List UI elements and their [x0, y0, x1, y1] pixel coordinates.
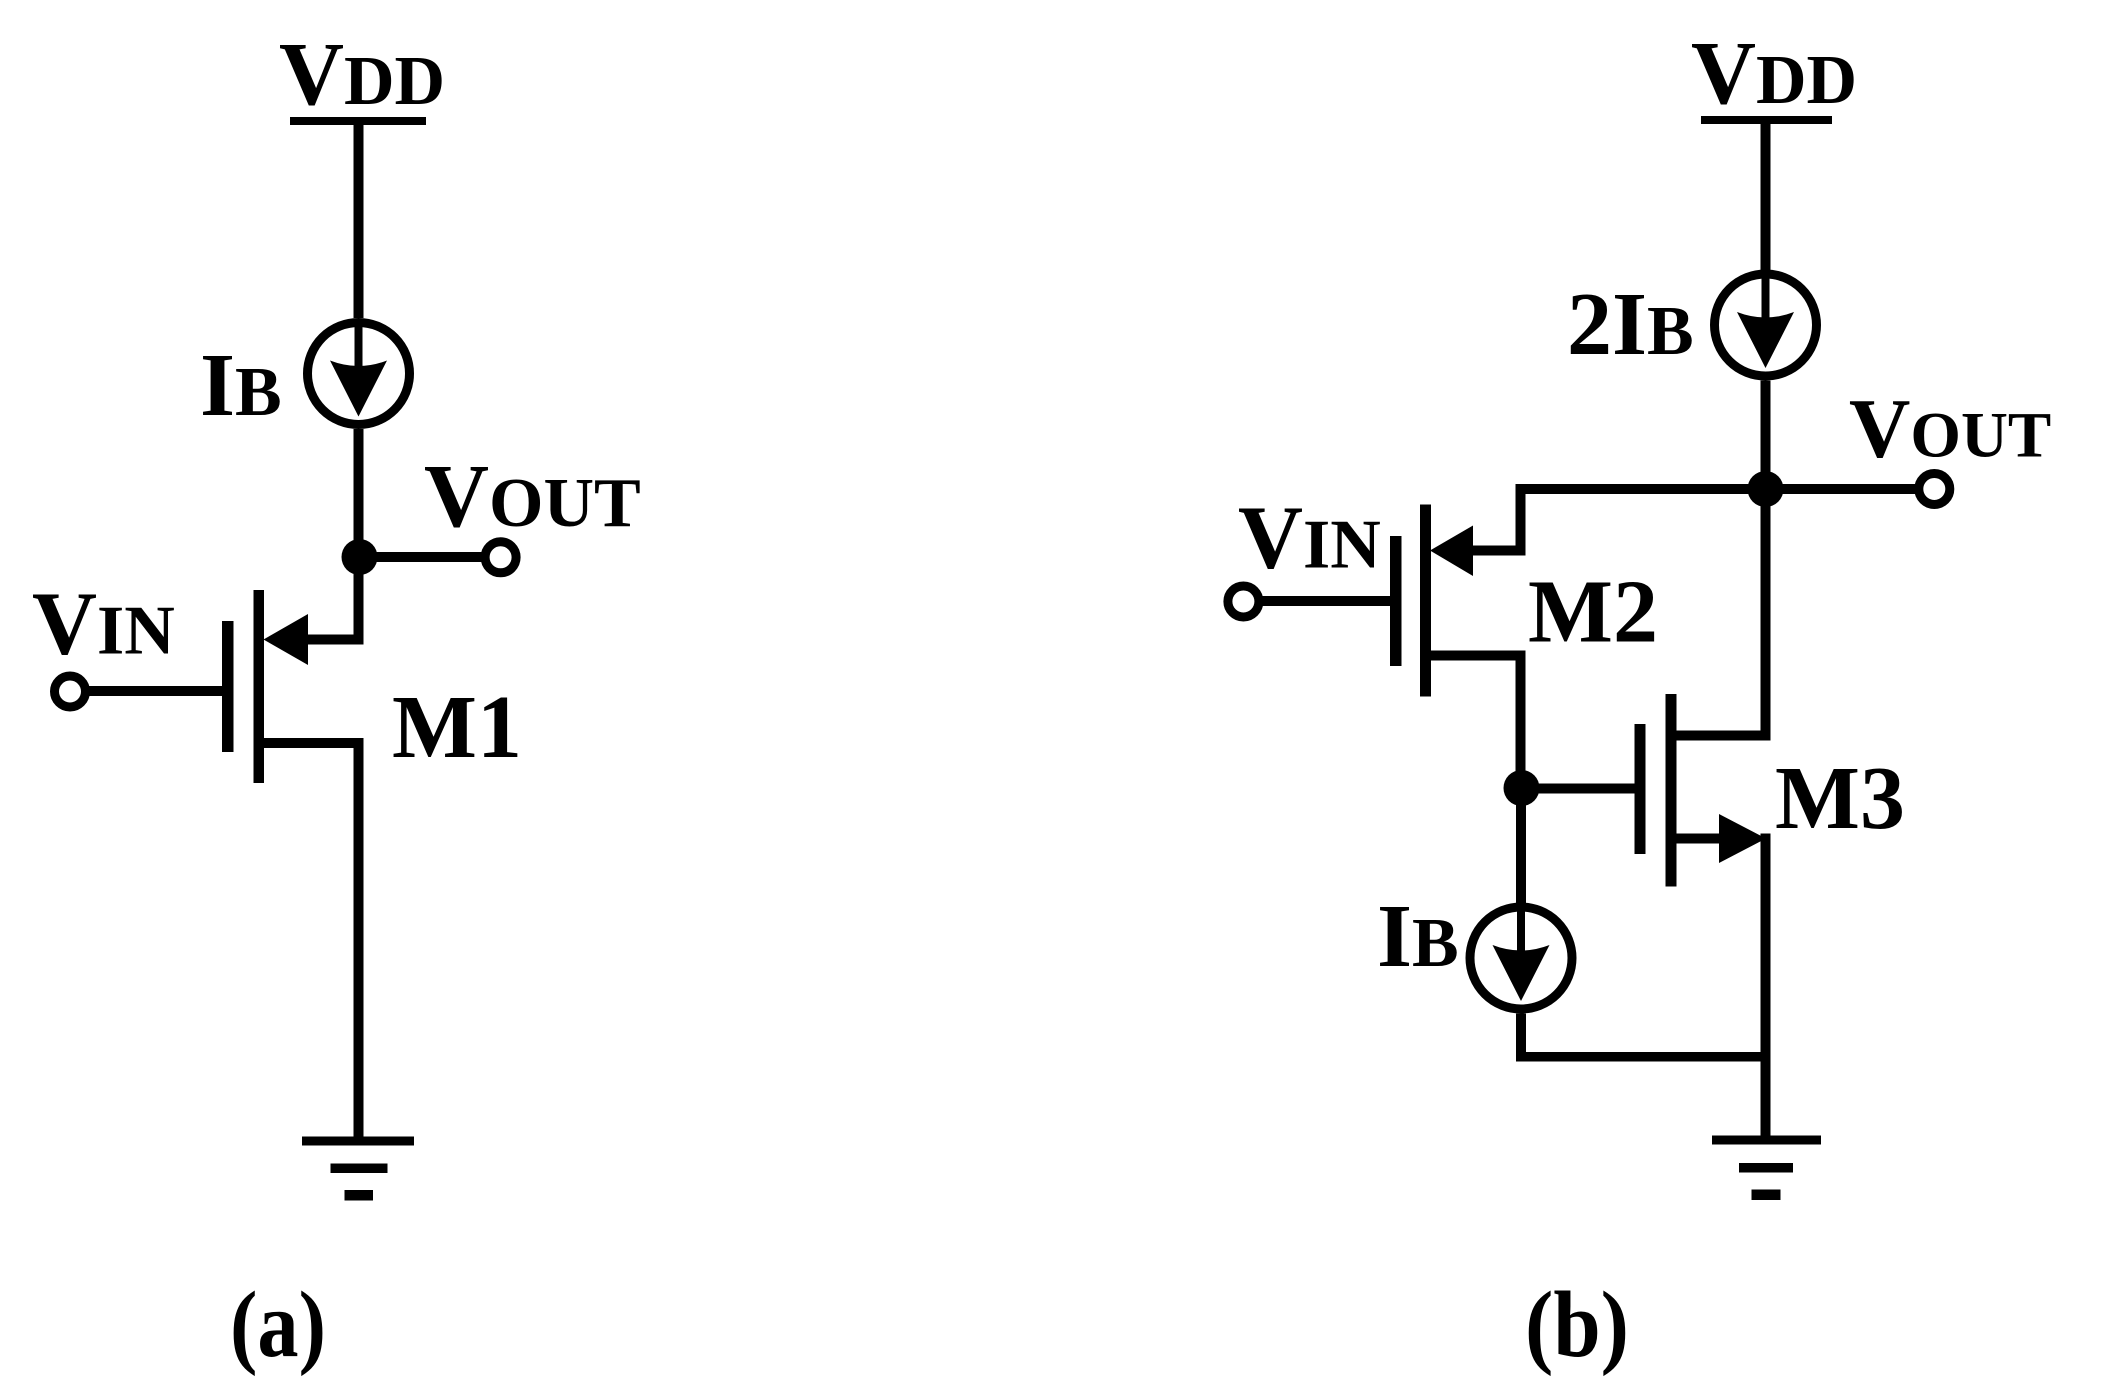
svg-text:VOUT: VOUT: [424, 447, 641, 546]
svg-text:VIN: VIN: [1238, 489, 1381, 588]
svg-text:VIN: VIN: [32, 575, 175, 674]
svg-text:M2: M2: [1528, 563, 1658, 662]
svg-text:IB: IB: [200, 336, 282, 435]
svg-text:VDD: VDD: [279, 25, 445, 124]
svg-text:M3: M3: [1775, 749, 1905, 848]
svg-text:(b): (b): [1525, 1273, 1629, 1377]
svg-text:VDD: VDD: [1691, 24, 1857, 123]
svg-text:VOUT: VOUT: [1849, 382, 2051, 476]
svg-text:IB: IB: [1377, 887, 1459, 986]
svg-text:(a): (a): [230, 1273, 326, 1377]
svg-text:2IB: 2IB: [1567, 275, 1694, 374]
svg-text:M1: M1: [392, 678, 522, 777]
